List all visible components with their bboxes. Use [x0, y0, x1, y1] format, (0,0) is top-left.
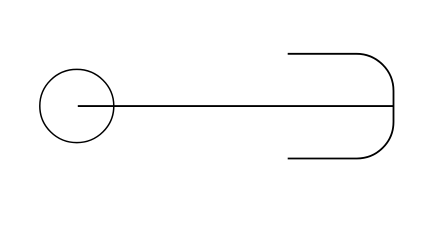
wire — [78, 105, 394, 107]
plug tip circle — [40, 69, 114, 142]
jack body — [288, 54, 394, 159]
